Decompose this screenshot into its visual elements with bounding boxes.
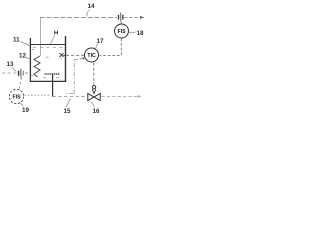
- svg-text:16: 16: [93, 108, 101, 115]
- svg-text:FIS: FIS: [13, 95, 22, 101]
- wire gas line 15 left segment dashed: [53, 95, 87, 97]
- wire signal FIS 19 dotted to pipe: [25, 94, 52, 96]
- svg-text:18: 18: [137, 30, 145, 37]
- leader for 18: [129, 32, 136, 33]
- wire gas line right segment dashed: [102, 96, 141, 98]
- leader for 17: [96, 44, 98, 49]
- wire connector to FIS 18: [120, 22, 122, 24]
- leader for 14: [87, 10, 90, 17]
- tank 11 right wall: [65, 36, 67, 82]
- instrument FIS 19 dashed bubble: [9, 89, 23, 103]
- wire heater supply dashed left: [2, 72, 17, 74]
- svg-text:TIC: TIC: [87, 53, 96, 59]
- wire signal TIC to valve actuator dashed: [93, 63, 95, 85]
- battery symbol 13: [19, 69, 24, 78]
- pipe from tank bottom to gas line: [52, 75, 54, 97]
- wire vent pipe from tank top: [39, 17, 41, 56]
- leader for 13: [12, 67, 16, 72]
- wire signal FIS18 to elbow: [100, 39, 122, 56]
- svg-text:13: 13: [7, 61, 15, 68]
- leader for 16: [91, 102, 95, 108]
- leader for 19: [21, 104, 24, 107]
- svg-text:11: 11: [13, 37, 20, 44]
- instrument TIC 17: [85, 48, 99, 62]
- svg-text:17: 17: [97, 38, 105, 45]
- wire exhaust line 14 top dashed horizontal: [40, 16, 140, 18]
- svg-text:15: 15: [64, 108, 72, 115]
- svg-text:19: 19: [22, 107, 30, 114]
- instrument FIS 18: [115, 24, 129, 38]
- wire signal sensor to TIC: [66, 54, 84, 56]
- liquid 12 surface line: [30, 44, 66, 46]
- sparger bar in tank: [45, 72, 61, 75]
- heater zigzag element: [34, 56, 40, 77]
- control valve 16 body: [88, 94, 100, 101]
- arrowhead into TIC: [82, 57, 86, 60]
- arrowhead exhaust outlet: [140, 16, 145, 19]
- wire battery to tank wall: [25, 72, 30, 74]
- wire signal flow feedback to TIC dash-dot: [66, 59, 83, 94]
- leader for 12: [26, 57, 30, 59]
- temperature sensor X in tank: [60, 53, 67, 57]
- tank 11 bottom: [30, 80, 66, 82]
- svg-text:12: 12: [19, 53, 27, 60]
- leader for 11: [21, 42, 30, 46]
- control valve 16 actuator: [92, 86, 95, 89]
- arrowhead gas line right end: [138, 95, 142, 98]
- svg-text:14: 14: [88, 3, 96, 10]
- wire battery junction to FIS 19 dashed: [19, 78, 22, 90]
- flow element in line 14 (bar symbol): [119, 13, 123, 22]
- svg-text:FIS: FIS: [118, 29, 127, 35]
- leader for H: [51, 36, 55, 45]
- tank 11 left wall: [29, 38, 31, 82]
- leader for 15: [67, 99, 72, 108]
- liquid 12 surface dashes: [31, 48, 63, 78]
